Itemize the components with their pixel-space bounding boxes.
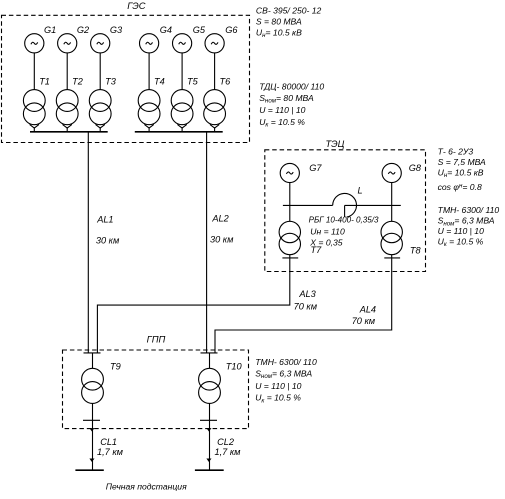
wire bar to T10 bbox=[209, 353, 211, 368]
node bar above T9 bbox=[84, 352, 101, 354]
svg-text:U = 110 | 10: U = 110 | 10 bbox=[259, 105, 305, 115]
arrow on cable mid (T9 feeder) bbox=[89, 459, 94, 463]
line AL1 (wire) bbox=[87, 132, 89, 353]
wire G1 to T1 bbox=[33, 53, 35, 90]
svg-text:U = 110 | 10: U = 110 | 10 bbox=[438, 226, 484, 236]
transformer T5 bbox=[171, 76, 198, 124]
bar under T9 bbox=[83, 419, 100, 421]
generator G6 bbox=[205, 25, 238, 53]
transformer T1 bbox=[23, 76, 50, 124]
bus bar GES left bbox=[30, 131, 108, 133]
arrow on cable mid (T10 feeder) bbox=[206, 459, 211, 463]
svg-text:cos φн​= 0.8: cos φн​= 0.8 bbox=[438, 182, 482, 192]
generator G4 bbox=[140, 25, 172, 53]
svg-text:Печная подстанция: Печная подстанция bbox=[106, 481, 187, 491]
svg-text:G3: G3 bbox=[110, 25, 123, 35]
transformer T9 bbox=[82, 361, 121, 403]
svg-text:Uк​ = 10.5 %: Uк​ = 10.5 % bbox=[259, 117, 305, 129]
svg-text:L: L bbox=[358, 186, 363, 196]
generator G2 bbox=[58, 25, 90, 53]
svg-text:Т10: Т10 bbox=[226, 361, 243, 371]
svg-text:T5: T5 bbox=[187, 76, 199, 86]
substation box GPP (dashed) bbox=[63, 350, 249, 429]
svg-text:CL2: CL2 bbox=[217, 437, 234, 447]
wire G3 to T3 bbox=[99, 53, 101, 90]
wire G4 to T4 bbox=[148, 53, 150, 90]
svg-text:AL2: AL2 bbox=[211, 214, 228, 224]
wire T1 to bus (star point) bbox=[30, 124, 39, 131]
wire G6 to T6 bbox=[214, 53, 216, 90]
svg-text:1,7 км: 1,7 км bbox=[97, 447, 124, 457]
svg-text:РБГ 10-400- 0,35/3: РБГ 10-400- 0,35/3 bbox=[309, 216, 379, 225]
transformer T8 bbox=[381, 221, 422, 255]
wire 10kV bus right of reactor bbox=[345, 204, 401, 206]
svg-text:G6: G6 bbox=[225, 25, 238, 35]
bus bar GES right bbox=[135, 131, 223, 133]
wire G5 to T5 bbox=[181, 53, 183, 90]
svg-text:G8: G8 bbox=[409, 163, 422, 173]
wire T9 down to cable bbox=[92, 403, 94, 470]
terminal bar CL1 bbox=[75, 469, 103, 471]
wire T4 to bus (star point) bbox=[144, 124, 153, 131]
transformer T6 bbox=[204, 76, 231, 124]
svg-text:Uк​ = 10.5 %: Uк​ = 10.5 % bbox=[438, 237, 484, 249]
wire T6 to bus (star point) bbox=[210, 124, 219, 131]
svg-text:U = 110 | 10: U = 110 | 10 bbox=[255, 381, 301, 391]
line AL2 (wire) bbox=[206, 132, 208, 353]
svg-text:ТДЦ- 80000/ 110: ТДЦ- 80000/ 110 bbox=[259, 81, 324, 91]
generator G7 bbox=[280, 163, 322, 183]
svg-text:T3: T3 bbox=[105, 76, 117, 86]
svg-text:X = 0,35: X = 0,35 bbox=[309, 237, 342, 247]
svg-text:S = 7,5 МВА: S = 7,5 МВА bbox=[438, 157, 486, 167]
svg-text:T6: T6 bbox=[220, 76, 232, 86]
wire bar to T9 bbox=[92, 353, 94, 368]
svg-text:Uк​ = 10.5 %: Uк​ = 10.5 % bbox=[255, 393, 301, 405]
transformer T4 bbox=[138, 76, 165, 124]
station box GES (dashed) bbox=[2, 15, 250, 142]
station box TEC (dashed) bbox=[265, 150, 426, 272]
svg-text:CL1: CL1 bbox=[100, 437, 117, 447]
wire G7 down to transformer bbox=[289, 183, 291, 222]
svg-text:70 км: 70 км bbox=[352, 316, 376, 326]
svg-text:G5: G5 bbox=[193, 25, 206, 35]
svg-text:Т9: Т9 bbox=[110, 361, 121, 371]
svg-text:Sном​= 6,3 МВА: Sном​= 6,3 МВА bbox=[255, 369, 312, 381]
wire G2 to T2 bbox=[66, 53, 68, 90]
bar under T7 bbox=[282, 257, 298, 259]
svg-text:T1: T1 bbox=[39, 76, 50, 86]
svg-text:AL3: AL3 bbox=[298, 289, 316, 299]
svg-text:ТМН- 6300/ 110: ТМН- 6300/ 110 bbox=[255, 357, 317, 367]
wire T10 down to cable bbox=[209, 403, 211, 470]
wire T5 to bus (star point) bbox=[177, 124, 186, 131]
svg-text:70 км: 70 км bbox=[294, 301, 318, 311]
svg-text:AL4: AL4 bbox=[359, 304, 376, 314]
svg-text:ГЭС: ГЭС bbox=[127, 0, 146, 11]
node bar above T10 bbox=[201, 352, 218, 354]
transformer T10 bbox=[199, 361, 243, 403]
generator G3 bbox=[91, 25, 123, 53]
transformer T3 bbox=[89, 76, 116, 124]
svg-text:30 км: 30 км bbox=[96, 235, 120, 245]
svg-text:G4: G4 bbox=[160, 25, 172, 35]
transformer T7 bbox=[279, 221, 322, 255]
line AL3 (wire T7 down, left, down to GPP) bbox=[97, 255, 289, 353]
svg-text:ТЭЦ: ТЭЦ bbox=[326, 138, 345, 149]
svg-text:G2: G2 bbox=[77, 25, 89, 35]
svg-text:T2: T2 bbox=[72, 76, 83, 86]
svg-text:Uн = 110: Uн = 110 bbox=[310, 226, 345, 236]
arrow on cable at GPP border (T10 feeder) bbox=[206, 428, 211, 431]
svg-text:ТМН- 6300/ 110: ТМН- 6300/ 110 bbox=[438, 205, 500, 215]
bar under T8 bbox=[384, 257, 400, 259]
generator G1 bbox=[25, 25, 57, 53]
wire T2 to bus (star point) bbox=[63, 124, 72, 131]
svg-text:30 км: 30 км bbox=[210, 235, 234, 245]
wire G8 down to transformer bbox=[391, 183, 393, 222]
generator G5 bbox=[173, 25, 206, 53]
svg-text:G7: G7 bbox=[309, 163, 322, 173]
svg-text:СВ- 395/ 250- 12: СВ- 395/ 250- 12 bbox=[256, 5, 322, 15]
svg-text:T4: T4 bbox=[154, 76, 165, 86]
svg-text:1,7 км: 1,7 км bbox=[215, 447, 242, 457]
wire T3 to bus (star point) bbox=[96, 124, 105, 131]
transformer T2 bbox=[56, 76, 83, 124]
svg-text:G1: G1 bbox=[44, 25, 56, 35]
svg-text:ГПП: ГПП bbox=[147, 333, 166, 344]
svg-text:AL1: AL1 bbox=[96, 215, 113, 225]
svg-text:Sном​= 80 МВА: Sном​= 80 МВА bbox=[259, 93, 314, 105]
svg-text:Uн​= 10.5 кВ: Uн​= 10.5 кВ bbox=[256, 28, 302, 40]
svg-text:Т8: Т8 bbox=[410, 246, 422, 256]
line AL4 (wire T8 down, left, down to GPP) bbox=[215, 255, 392, 353]
svg-text:Uн​= 10.5 кВ: Uн​= 10.5 кВ bbox=[438, 167, 484, 179]
svg-text:S = 80 МВА: S = 80 МВА bbox=[256, 16, 302, 26]
reactor L bbox=[333, 193, 357, 217]
wire 10kV bus left of reactor bbox=[283, 204, 333, 206]
terminal bar CL2 bbox=[195, 469, 224, 471]
bar under T10 bbox=[200, 419, 217, 421]
arrow on cable at GPP border (T9 feeder) bbox=[89, 428, 94, 431]
svg-text:Т- 6- 2У3: Т- 6- 2У3 bbox=[438, 146, 474, 156]
generator G8 bbox=[382, 163, 422, 183]
